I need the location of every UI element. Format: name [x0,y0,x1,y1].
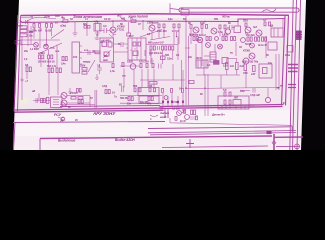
resistor R75 [224,100,226,104]
knots on drops [162,101,184,104]
box b-r [218,96,249,109]
resistor R41 [152,64,154,68]
double vertical right [276,54,279,90]
wire arc input [26,17,56,22]
mid-bottom h lines [120,96,163,104]
M2 inner rects [102,42,107,47]
svg-text:0,1: 0,1 [97,64,101,68]
small frame box [287,46,293,53]
frame bottom left segment [15,108,163,112]
edge connector box [296,31,302,41]
wire v cluster A [34,28,52,48]
module box M2 [100,38,114,62]
wire v mid drops [131,48,150,56]
transistor VT24 [206,43,211,48]
capacitor C6 [97,64,102,74]
hw marks under rsu [58,117,64,120]
svg-text:Детек Вч: Детек Вч [211,113,225,117]
resistor R81 [184,110,186,114]
wire h mid [21,26,34,45]
wire h 100 [33,94,50,101]
smudge yellow [19,98,29,105]
wire drops cluster D [191,29,225,36]
wire drops from cluster C [159,29,179,45]
resistor R78 [171,89,173,93]
U5 hatch [198,60,206,68]
svg-text:С4 10: С4 10 [104,17,111,21]
resistor R24 [219,25,221,29]
small rect on verticals [189,81,194,84]
resistor R87 [108,90,110,94]
resistor R9 [42,55,44,59]
svg-text:4,7к 220: 4,7к 220 [139,60,149,64]
resistor R82 [191,110,193,115]
wire out M1 [80,52,101,54]
cross mark bottom [186,139,194,148]
marks under U1 [95,33,100,35]
exit wires right lower [288,85,296,88]
rect pair c4 [231,37,233,41]
resistor R51 [29,67,31,72]
resistor R12 [20,26,27,29]
vertical wires mid [151,32,178,64]
rects above drop: resistor R77 [162,89,164,93]
svg-text:130 б00: 130 б00 [38,60,47,64]
main top bus [22,21,238,23]
svg-text:СВЧусил: СВЧусил [147,21,159,25]
capacitor C5 [159,64,162,69]
svg-text:560: 560 [214,17,219,21]
wire h 64 [120,65,140,67]
resistor R39 [140,64,142,68]
svg-text:Зона атенюат: Зона атенюат [73,14,103,19]
resistor R45 [149,82,157,85]
svg-text:1,7к: 1,7к [17,20,23,24]
resistor R53b [56,68,58,73]
svg-text:с(3м): с(3м) [60,24,66,28]
svg-text:2,2к 100: 2,2к 100 [157,29,167,33]
svg-text:ФП: ФП [234,96,238,100]
vertical x266 [265,36,267,58]
wire tops r60 [196,59,240,76]
svg-text:47 82: 47 82 [172,100,179,104]
svg-text:4,7Д №Р: 4,7Д №Р [250,93,260,97]
box b-r hatch [222,106,245,109]
transistor VT25 [218,44,223,49]
svg-text:82 8Н: 82 8Н [189,33,196,37]
left col rects: resistor R92 [62,57,64,61]
svg-text:6МГц сист 0,47: 6МГц сист 0,47 [148,42,164,45]
wire h 57 [204,55,210,57]
input connector J1 [15,39,21,46]
resistor R89 [131,97,133,101]
rect pair c2 [206,37,208,41]
vertical group [191,36,236,66]
M3 divides [132,38,141,60]
resistor R11 [51,55,53,59]
resistor R65 [247,37,249,41]
capacitor C3 [227,25,235,30]
resistor R53c [59,68,61,73]
transistor VT13 [130,64,136,70]
resistor R22 [201,25,203,29]
corner dark square [267,131,272,135]
capacitor C4b [158,46,160,50]
svg-text:2Ом: 2Ом [285,53,290,57]
resistor R58 [71,97,76,100]
resistor R34b [165,46,167,50]
capacitor Cb [36,98,38,103]
wire diag2 [140,30,162,38]
pink wash inside frame [17,18,288,110]
svg-text:КТ361: КТ361 [243,49,251,53]
svg-text:560 43к: 560 43к [120,96,129,100]
U7 inner [263,68,268,74]
resistor R14 on bus [63,20,68,23]
arrow from a05 [120,17,127,21]
wire vt3 [112,21,114,38]
ground G2 [95,34,100,40]
transistor VT18 [241,38,246,43]
resistor R52 [48,68,50,73]
resistor R34 [162,46,164,50]
transistor VT4 [149,25,155,31]
svg-text:2SА: 2SА [243,19,248,23]
hatch marks cluster [190,117,197,119]
paper sheet [13,0,306,150]
svg-text:дет: дет [103,58,109,62]
svg-text:АРУ ЗОНУ: АРУ ЗОНУ [92,111,116,116]
transistor VT19 [249,53,255,59]
svg-text:330: 330 [148,84,153,88]
svg-text:600 4,7к: 600 4,7к [47,64,57,68]
resistor R33 [153,46,155,50]
frame corner box right [282,102,284,105]
svg-text:6,8 330: 6,8 330 [172,107,180,111]
wire h 44 center [126,47,190,49]
circle comp [164,96,168,100]
box low-left [51,97,63,108]
svg-text:470/: 470/ [243,71,248,75]
resistor R85 [81,100,83,104]
resistor R56 [46,97,49,103]
hw mark 2 [150,115,158,117]
connector edge right [296,32,302,37]
svg-text:вход: вход [160,115,167,119]
svg-text:0Д: 0Д [25,63,28,67]
resistor R83 [196,116,198,120]
wires vt14 [67,96,90,108]
wire diag [40,43,62,53]
svg-text:1к 82: 1к 82 [45,29,52,33]
frame top line [21,14,288,16]
resistor R35 [169,46,171,50]
title block lower line [276,145,300,147]
junction d3 [176,36,177,37]
wire h 80 [140,79,185,81]
box U2 [234,26,241,33]
rsu circle mark [61,117,65,121]
mark plus [20,78,24,82]
resistor R2 [33,24,35,28]
transistor VT8 [245,27,251,33]
resistor R66b [258,37,260,41]
bus right jog [238,19,285,22]
box low-left inner [53,100,59,105]
blob right of U5 [214,61,220,65]
wire v u1 [97,21,99,36]
wire L [237,19,239,26]
resistor R90 [148,97,150,101]
box b-r inner [233,100,241,106]
cluster below frame: transistor VT22 [177,111,182,116]
resistor R47 [139,88,141,92]
module box M1 tall [72,42,80,73]
vertical x221 [220,75,222,88]
svg-text:560: 560 [133,84,138,88]
ground G3 [68,88,72,94]
svg-text:1,5к: 1,5к [110,69,115,73]
left sheet edge vertical [14,123,16,151]
bottom line 2 [162,146,268,148]
resistor R16 on bus [131,20,136,23]
marks under VT3 [109,34,116,37]
svg-text:6,8 2к: 6,8 2к [222,33,229,37]
sheet right edge lines [290,0,301,150]
svg-text:220: 220 [29,30,34,34]
resistor R69 [244,64,247,71]
resistor R27 [264,22,266,26]
CONTENT [13,7,303,150]
capacitor C1 [22,20,31,24]
title block top edge [274,136,303,138]
resistor R28 [269,22,271,26]
hanging row: resistor R84 [78,100,80,104]
svg-text:3,3в: 3,3в [167,57,172,61]
svg-text:3к 1к 47: 3к 1к 47 [258,43,268,47]
resistor R18 [163,24,165,28]
svg-text:10,7: 10,7 [129,34,134,38]
bottom box left vertical [39,139,41,151]
bottom box top edge [40,136,272,139]
transistor VT3 [110,27,116,33]
transistor VT15 [61,100,67,106]
resistor R10 [48,55,50,59]
transistor VT26 [250,43,255,48]
resistor R7 [20,34,27,37]
diode X mark [182,110,186,114]
resistor R67 [262,37,264,41]
box U6 [268,42,277,50]
box U1 [94,24,101,32]
resistor R43 [82,72,87,75]
resistor R55 [43,98,45,102]
resistor R19 [173,24,175,28]
transistor VT2 [44,44,49,49]
svg-text:ФСС: ФСС [196,56,202,60]
junction dots bus [61,20,238,22]
wire h 88 right [185,88,280,89]
M1 pins [80,46,83,64]
box U5 [196,60,208,68]
svg-text:5,6: 5,6 [223,88,227,92]
transistor VT6 [211,28,217,34]
transistor VT7 [225,29,230,34]
wires drop to bottom bus [163,93,183,107]
svg-text:хЗУ: хЗУ [251,72,256,76]
resistor R53 [51,68,53,73]
svg-text:а8: а8 [32,89,36,93]
vertical x181 [181,60,183,92]
ground G1 [73,22,78,36]
wire down from cluster [170,118,290,125]
resistor R44 [112,64,114,68]
svg-text:осн: осн [55,50,60,53]
svg-text:Выдел АЗОН: Выдел АЗОН [115,138,135,142]
resistor R82b [194,110,196,115]
transistor VT23 [185,115,190,120]
svg-text:0,022: 0,022 [127,60,134,64]
ground G5 [95,74,99,80]
transistor VT14 [61,93,67,99]
dense cluster: transistor VT5 [193,27,199,33]
small box B1 [181,10,189,16]
resistor R91 [151,97,153,101]
frame left double line [14,16,21,112]
svg-text:3,3: 3,3 [103,24,107,28]
resistor R50 [26,67,28,72]
resistor R74 [229,92,231,96]
scan background [0,0,325,150]
module box M3 [128,38,146,60]
junction a4 [277,87,279,89]
vertical wires center-right [186,16,208,116]
resistor R48 [149,88,151,92]
diag small [88,60,95,72]
frame bottom right segment [160,105,282,109]
wire top arcs A [34,22,52,24]
resistor R4 [46,24,48,28]
resistor R20 [178,24,180,28]
resistor R88 [128,97,130,101]
vertical drops row64 [124,69,154,88]
rect comp [222,58,228,64]
lighter band below frame [15,110,290,136]
svg-text:100: 100 [55,14,60,18]
svg-text:Выделение: Выделение [58,139,76,143]
resistor R5 [51,24,53,28]
resistor R65b [250,37,252,41]
diamond marker [272,141,276,145]
resistor R86 [105,90,107,94]
resistor R25 [224,25,226,29]
resistor R6 [20,30,27,33]
wire v from R15 [86,21,88,36]
transistor VT20 [243,58,249,64]
svg-text:5б 82: 5б 82 [245,42,252,46]
pair 38 [77,89,79,93]
wire h 40 left [22,39,60,41]
resistor R59 [78,97,83,100]
ground G4 [150,58,154,63]
rect pair c1 [193,37,195,41]
transistor VT21 [265,97,270,102]
svg-text:ВА: ВА [183,17,187,21]
junction d1 [142,20,143,21]
svg-text:560: 560 [165,53,170,57]
wire v left low [27,72,58,95]
frame right verticals [282,15,289,105]
resistor R17 [158,24,160,28]
resistor R40 [146,64,148,68]
svg-text:1У2: 1У2 [73,55,78,59]
resistor R66 [255,37,257,41]
transistor VT16 [197,37,202,42]
resistor R3 [39,24,41,28]
wire v 173 183 down [173,64,183,88]
mid row 64: resistor R38 [122,63,124,67]
blob component [161,56,166,60]
double lines low [148,131,296,135]
right area: resistor R26 [245,23,247,27]
junction d205 [204,87,206,89]
transistor VT9 [256,30,262,36]
svg-text:4,7Д: 4,7Д [102,84,107,88]
capacitor low right [253,88,255,93]
cluster: resistor R32 [150,46,152,50]
svg-text:ГТ311: ГТ311 [117,28,125,32]
resistor R80 [175,117,177,121]
resistor R8 [39,55,41,59]
wire v2 [35,28,57,68]
svg-text:кварц: кварц [83,61,91,64]
transistor VT1 [34,43,39,48]
resistor R93 [65,57,67,61]
left lower: resistor R46 [134,88,136,92]
wire v 22 down [21,36,23,100]
resistor R70 [253,66,256,72]
box U3 [271,28,283,37]
box U7 [259,64,272,78]
resistor R21 [190,25,192,29]
svg-text:82к 360: 82к 360 [140,100,149,104]
hanging rects: resistor R73 [224,92,226,96]
resistor R54 [41,98,43,102]
wire v 143 [142,21,144,30]
small comp x127 [127,33,131,36]
resistor R42 [82,68,87,71]
ribbon inner mark [262,9,276,12]
resistor R15 [84,26,87,29]
capacitor C2 [100,28,110,33]
transistor VT17 [215,37,219,41]
wire h mid2 [114,44,179,52]
line mid low [148,125,292,131]
wire h 104 [60,104,95,106]
resistor R61 [236,63,239,70]
svg-text:2к 47: 2к 47 [180,119,186,123]
wire v left [27,22,29,46]
sub verticals [165,108,168,118]
svg-text:4,7: 4,7 [263,18,267,22]
resistor R68 [265,37,267,41]
resistor R76 [229,100,231,104]
resistor R23 [206,25,208,29]
resistor R36 [172,46,174,50]
M3 inner rects [133,42,136,46]
tall hatched M2 [210,52,216,62]
wire diag top [150,37,170,41]
